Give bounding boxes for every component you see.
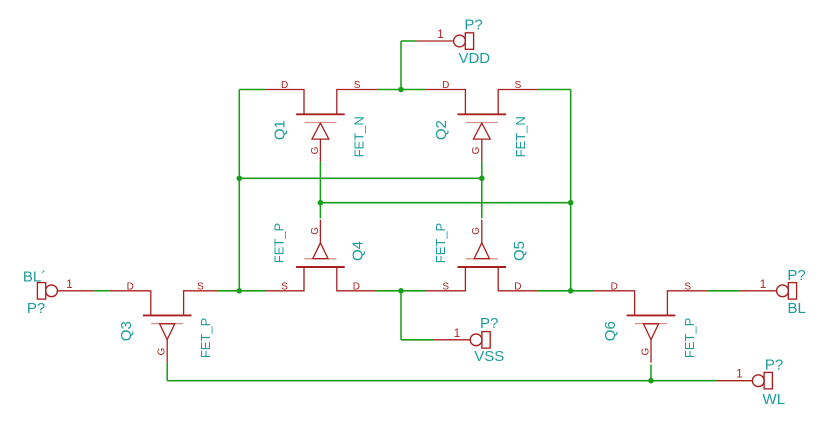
svg-text:Q1: Q1 — [271, 120, 288, 140]
svg-text:Q4: Q4 — [349, 241, 366, 261]
pin wire of port BL' — [57, 290, 94, 292]
svg-text:G: G — [310, 227, 321, 235]
connector port P? BL: symbol — [777, 283, 797, 300]
svg-text:G: G — [640, 347, 651, 355]
wire VDD drop vertical — [400, 41, 402, 90]
wire VSS horizontal — [401, 339, 433, 341]
svg-text:WL: WL — [763, 391, 786, 408]
svg-text:G: G — [310, 146, 321, 154]
wire Q5.D to Q6.D — [538, 290, 594, 292]
svg-text:G: G — [157, 347, 168, 355]
junction — [568, 200, 574, 206]
junction — [237, 176, 243, 182]
junction — [648, 378, 654, 384]
wire Q6.S to BL port — [708, 290, 739, 292]
connector port P? WL: symbol — [752, 372, 772, 389]
wire cross B — [320, 202, 570, 204]
svg-text:1: 1 — [736, 369, 742, 381]
svg-text:FET_P: FET_P — [271, 223, 286, 263]
svg-text:1: 1 — [66, 279, 72, 291]
svg-text:1: 1 — [437, 29, 443, 41]
svg-text:P?: P? — [27, 300, 45, 317]
svg-text:Q3: Q3 — [118, 321, 135, 341]
pin wire of port VSS — [433, 339, 470, 341]
wire gate link Q2-Q5 — [481, 162, 483, 219]
svg-text:FET_N: FET_N — [513, 116, 528, 157]
wire Q3 gate drop — [166, 363, 168, 381]
svg-text:P?: P? — [787, 267, 805, 284]
svg-text:1: 1 — [760, 279, 766, 291]
svg-text:S: S — [515, 80, 522, 91]
svg-text:D: D — [127, 281, 134, 292]
svg-text:1: 1 — [454, 328, 460, 340]
wire right rail (node Qbar) — [570, 90, 572, 291]
transistor Q5 (FET_P) — [426, 220, 538, 291]
svg-text:BL: BL — [788, 300, 806, 317]
pin wire of port VDD — [416, 40, 453, 42]
junction — [398, 288, 404, 294]
transistor Q6 (FET_P) — [594, 291, 708, 363]
transistor Q4 (FET_P) — [265, 220, 376, 291]
wire top rail left segment — [239, 89, 265, 91]
svg-text:VSS: VSS — [474, 348, 504, 365]
wire WL horizontal — [167, 380, 716, 382]
junction — [479, 176, 485, 182]
wire cross A — [239, 177, 481, 179]
svg-text:FET_P: FET_P — [682, 318, 697, 358]
svg-text:G: G — [471, 146, 482, 154]
svg-text:D: D — [611, 281, 618, 292]
connector port P? VSS: symbol — [470, 332, 490, 349]
svg-text:D: D — [353, 281, 360, 292]
svg-text:FET_P: FET_P — [198, 318, 213, 358]
svg-text:S: S — [354, 80, 361, 91]
wire gate link Q1-Q4 — [319, 162, 321, 219]
svg-text:BL´: BL´ — [23, 269, 46, 286]
pin wire of port WL — [717, 380, 753, 382]
svg-text:D: D — [514, 281, 521, 292]
junction — [318, 200, 324, 206]
connector port P? BL': symbol — [37, 283, 57, 300]
svg-text:D: D — [281, 80, 288, 91]
wire top rail middle segment — [377, 89, 426, 91]
wire bottom BLb to Q3.D — [94, 290, 110, 292]
svg-text:P?: P? — [464, 16, 482, 33]
wire Q3.S to Q4.S — [217, 290, 265, 292]
svg-text:VDD: VDD — [458, 50, 490, 67]
wire top rail right segment — [538, 89, 571, 91]
pin wire of port BL — [739, 290, 776, 292]
svg-text:Q6: Q6 — [602, 321, 619, 341]
connector port P? VDD: symbol — [454, 33, 474, 50]
svg-text:FET_N: FET_N — [351, 116, 366, 157]
svg-text:P?: P? — [480, 315, 498, 332]
svg-text:S: S — [197, 281, 204, 292]
svg-text:S: S — [684, 281, 691, 292]
svg-text:FET_P: FET_P — [433, 223, 448, 263]
svg-text:Q5: Q5 — [511, 241, 528, 261]
wire Q6 gate drop — [650, 365, 652, 381]
junction — [568, 288, 574, 294]
transistor Q2 (FET_N) — [426, 90, 538, 162]
svg-text:D: D — [442, 80, 449, 91]
svg-text:S: S — [281, 281, 288, 292]
wire Q4.D to Q5.S — [376, 290, 426, 292]
wire left rail (node Q) — [238, 90, 240, 291]
wire VDD horizontal stub — [401, 40, 416, 42]
junction — [398, 87, 404, 93]
svg-text:G: G — [471, 227, 482, 235]
junction — [237, 288, 243, 294]
wire VSS drop vertical — [400, 291, 402, 340]
svg-text:P?: P? — [765, 356, 783, 373]
svg-text:S: S — [442, 281, 449, 292]
transistor Q1 (FET_N) — [265, 90, 377, 162]
svg-text:Q2: Q2 — [433, 120, 450, 140]
transistor Q3 (FET_P) — [110, 291, 218, 363]
